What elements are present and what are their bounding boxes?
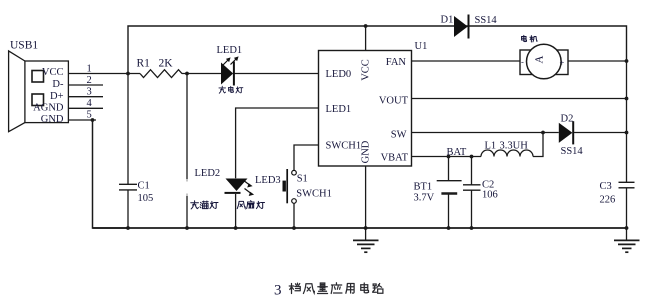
wire IC LED1 pin to LED3 column: [236, 108, 319, 178]
ground bus wire: [93, 227, 628, 229]
wire VCC main line y=73.5: [69, 73, 140, 75]
junction BT1 column: [447, 155, 451, 159]
wire right rail middle: [626, 61, 628, 182]
LED3 caption feng-shan-deng: [237, 201, 264, 209]
svg-text:VCC: VCC: [360, 59, 371, 81]
wire LED2 column lower: [186, 196, 188, 228]
inductor L1: [481, 150, 533, 157]
svg-text:VOUT: VOUT: [379, 96, 409, 107]
wire IC SWCH1 pin to S1: [294, 145, 319, 170]
svg-text:2K: 2K: [159, 58, 174, 70]
USB1 shield square 1: [32, 71, 44, 83]
svg-text:3.7V: 3.7V: [414, 193, 435, 204]
svg-text:3: 3: [274, 283, 282, 299]
svg-text:-: -: [521, 56, 524, 66]
svg-text:+: +: [560, 57, 565, 67]
junction VCC top rail: [364, 24, 368, 28]
wire top rail: [128, 26, 627, 74]
wire L1 up to SW line: [533, 133, 543, 157]
svg-text:VCC: VCC: [42, 67, 64, 78]
wire pin4 stub: [69, 107, 103, 109]
junction C2 column: [470, 155, 474, 159]
capacitor C2: [463, 157, 481, 229]
junction VCC/C1 column: [126, 72, 130, 76]
wire VBAT pin to L1: [412, 156, 482, 158]
svg-text:3: 3: [87, 87, 92, 98]
wire VCC pin column: [365, 26, 367, 51]
wire motor to right rail: [568, 60, 627, 62]
svg-text:USB1: USB1: [10, 40, 38, 52]
LED LED3: [225, 179, 255, 197]
junction D2 right rail: [625, 131, 629, 135]
wire pin5 down to ground bus: [93, 120, 129, 228]
svg-text:106: 106: [482, 190, 498, 201]
junction S1 bus: [292, 226, 296, 230]
wire S1 to bus: [293, 203, 295, 228]
motor caption dian-ji: [522, 35, 537, 42]
wire LED3 column lower: [235, 194, 237, 228]
svg-text:VBAT: VBAT: [381, 153, 409, 164]
IC U1 body: [319, 51, 412, 167]
wire pin2 stub: [69, 84, 103, 86]
diode D2: [559, 121, 573, 144]
junction C2 bus: [470, 226, 474, 230]
wire LED1 cathode to IC LED0: [235, 73, 319, 75]
diode D1: [454, 15, 469, 39]
svg-text:SWCH1: SWCH1: [296, 188, 332, 199]
svg-text:C1: C1: [138, 181, 150, 192]
svg-text:LED1: LED1: [326, 104, 352, 115]
ground symbol under U1: [353, 240, 379, 252]
junction GND bus: [364, 226, 368, 230]
svg-text:A: A: [533, 55, 545, 64]
junction LED3 bus: [234, 226, 238, 230]
svg-text:SW: SW: [391, 130, 407, 141]
svg-text:U1: U1: [415, 41, 428, 52]
svg-text:SS14: SS14: [561, 146, 584, 157]
svg-text:C3: C3: [600, 181, 612, 192]
wire C3 bus to ground: [626, 228, 628, 240]
switch S1: [283, 169, 297, 203]
svg-text:LED0: LED0: [326, 69, 352, 80]
wire C1 column upper: [127, 74, 129, 185]
junction BT1 bus: [447, 226, 451, 230]
svg-text:SS14: SS14: [475, 15, 498, 26]
svg-text:4: 4: [87, 98, 93, 109]
svg-text:LED3: LED3: [255, 175, 281, 186]
svg-text:GND: GND: [41, 114, 64, 125]
LED2 gap fade marks: [186, 179, 188, 196]
LED1 caption chong-dian-deng: [219, 86, 243, 93]
junction motor right rail: [625, 59, 629, 63]
svg-text:FAN: FAN: [386, 57, 407, 68]
svg-text:R1: R1: [137, 58, 151, 70]
capacitor C3: [619, 182, 635, 228]
svg-text:D-: D-: [52, 79, 64, 90]
battery BT1: [437, 157, 462, 229]
LED2 caption chong-man-deng: [191, 201, 218, 209]
svg-text:L1: L1: [485, 141, 497, 152]
svg-text:D1: D1: [441, 15, 454, 26]
wire D2 to right rail: [574, 132, 627, 134]
motor body circle: [527, 44, 562, 79]
wire GND pin column: [365, 166, 367, 240]
title: 3 dang feng liang ying yong dian lu: [274, 283, 383, 299]
svg-text:SWCH1: SWCH1: [326, 141, 362, 152]
ground symbol right: [614, 240, 640, 252]
svg-text:105: 105: [138, 193, 154, 204]
capacitor C1: [119, 184, 137, 190]
connector USB1 outline: [9, 51, 69, 132]
USB1 shield square 2: [32, 94, 44, 106]
resistor R1: [140, 70, 182, 78]
junction SW / L1: [541, 131, 545, 135]
junction LED2 bus: [185, 226, 189, 230]
svg-text:D2: D2: [561, 114, 574, 125]
svg-text:226: 226: [600, 194, 616, 205]
wire LED2 column upper: [186, 74, 188, 180]
wire FAN pin to motor: [412, 60, 521, 62]
wire VOUT to right rail: [412, 98, 627, 100]
junction C1 bus: [126, 226, 130, 230]
svg-text:S1: S1: [297, 174, 308, 185]
svg-text:BT1: BT1: [414, 182, 433, 193]
svg-text:GND: GND: [360, 140, 371, 163]
svg-text:3.3UH: 3.3UH: [500, 141, 529, 152]
LED LED1: [221, 56, 239, 85]
wire C1 column lower: [127, 190, 129, 228]
junction C3 bus: [625, 226, 629, 230]
wire R1 to LED1: [182, 73, 221, 75]
svg-text:D+: D+: [50, 91, 64, 102]
wire pin3 stub: [69, 96, 103, 98]
junction pin5: [91, 118, 95, 122]
motor frame: [520, 50, 568, 75]
junction VOUT right rail: [625, 97, 629, 101]
svg-text:AGND: AGND: [33, 103, 64, 114]
svg-text:LED1: LED1: [217, 45, 243, 56]
wire SW pin to D2: [412, 132, 559, 134]
junction LED2 column: [185, 72, 189, 76]
svg-text:LED2: LED2: [195, 168, 221, 179]
wire pin5 stub: [69, 119, 96, 121]
